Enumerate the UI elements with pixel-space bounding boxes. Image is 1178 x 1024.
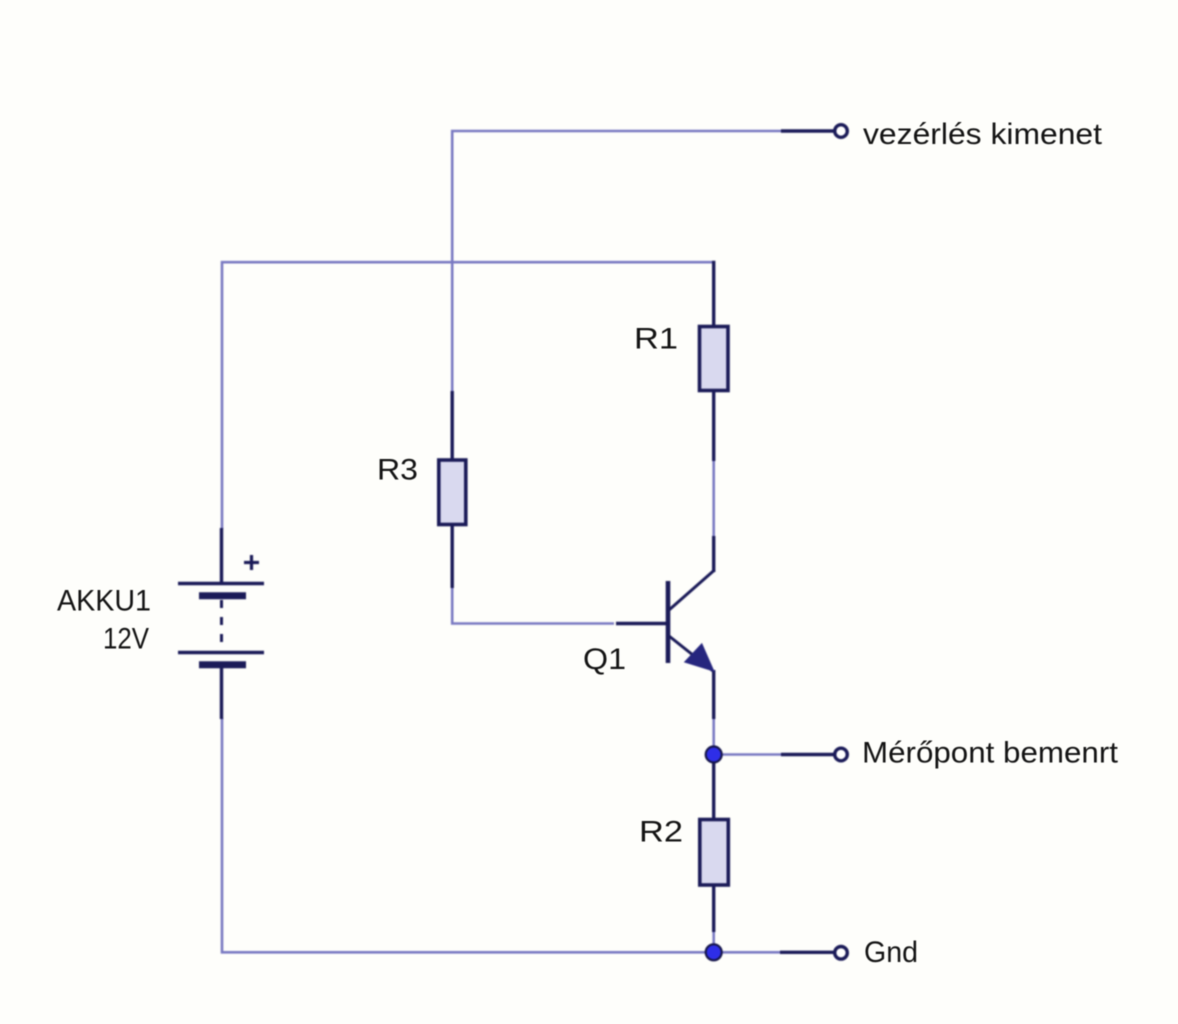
svg-text:Mérőpont bemenrt: Mérőpont bemenrt: [862, 737, 1119, 770]
svg-text:R3: R3: [377, 454, 418, 487]
svg-text:12V: 12V: [103, 623, 149, 656]
svg-text:R2: R2: [639, 816, 683, 849]
svg-text:R1: R1: [634, 323, 678, 356]
svg-text:Q1: Q1: [583, 643, 626, 676]
svg-text:Gnd: Gnd: [864, 936, 918, 969]
svg-text:vezérlés kimenet: vezérlés kimenet: [863, 118, 1103, 151]
svg-text:AKKU1: AKKU1: [57, 585, 151, 618]
